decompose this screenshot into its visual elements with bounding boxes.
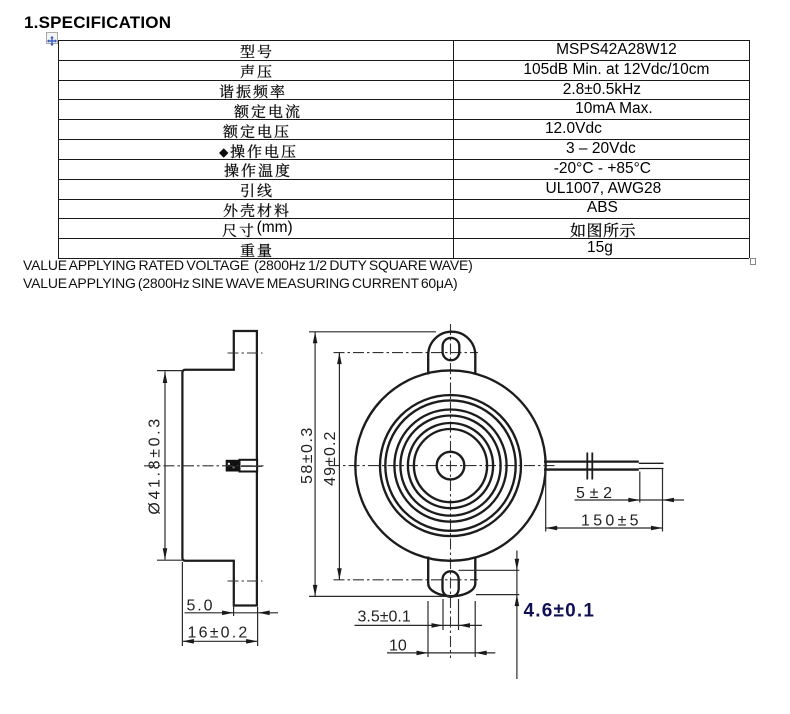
side view top tab centerline	[228, 352, 263, 354]
front view inner ring inner	[414, 429, 487, 502]
front view body circle outer	[380, 395, 521, 536]
150 left extension line	[545, 471, 547, 532]
svg-text:5.0: 5.0	[187, 598, 215, 615]
5.0 arrow right side	[258, 611, 270, 616]
wire break mark 1	[586, 453, 588, 480]
side view lead connector black block	[226, 460, 240, 472]
side view lead connector outlined block	[240, 460, 258, 472]
top tab hole centerline / 49-dim top reference	[334, 352, 479, 354]
dia41.8 dimension line	[164, 372, 166, 560]
10 extension right	[474, 601, 476, 657]
5+-2 arrow right	[663, 498, 675, 503]
10 dimension line	[387, 652, 495, 654]
3.5 extension right	[458, 599, 460, 630]
16 arrow left	[182, 639, 194, 644]
side view bottom tab centerline	[228, 580, 263, 582]
svg-text:16±0.2: 16±0.2	[188, 625, 250, 642]
svg-text:5±2: 5±2	[576, 485, 617, 502]
49 dimension line	[338, 353, 340, 580]
svg-text:3.5±0.1: 3.5±0.1	[358, 609, 411, 626]
front view inner ring outer	[408, 423, 493, 508]
wire lead bottom	[544, 468, 639, 470]
section title	[24, 13, 171, 33]
150 dimension line	[546, 527, 663, 529]
58 extension top	[309, 331, 436, 333]
front view vertical centerline	[450, 324, 452, 658]
stripped wire end top	[639, 462, 664, 464]
wire end extension line	[639, 472, 641, 503]
front view top mounting tab	[428, 332, 475, 375]
16 extension left	[181, 562, 183, 646]
3.5 extension left	[442, 599, 444, 630]
150 arrow right	[651, 526, 663, 531]
dia41.8 arrow down	[163, 548, 168, 560]
table move handle icon	[46, 32, 58, 44]
front view body circle inner	[385, 400, 515, 530]
58 arrow bottom	[313, 585, 318, 597]
front view ridge ring outer	[394, 410, 506, 522]
bottom tab hole	[443, 571, 459, 597]
49 arrow top	[337, 353, 342, 365]
16 arrow right	[246, 639, 258, 644]
5.0 extension line	[233, 600, 235, 617]
svg-text:58±0.3: 58±0.3	[299, 426, 316, 484]
bottom tab hole centerline / 49-dim bottom reference	[334, 579, 479, 581]
49 arrow bottom	[337, 568, 342, 580]
svg-text:49±0.2: 49±0.2	[322, 430, 339, 485]
svg-text:Ø41.8±0.3: Ø41.8±0.3	[147, 416, 164, 514]
4.6 top reference line	[459, 569, 520, 571]
58 dimension line	[314, 332, 316, 597]
wire tip extension line	[662, 469, 664, 532]
side view body outline	[182, 331, 257, 606]
10 extension left	[427, 601, 429, 657]
top tab hole	[443, 338, 460, 360]
stripped wire end bottom	[639, 468, 664, 470]
4.6 arrow up	[515, 595, 520, 607]
front view bottom mounting tab	[428, 557, 475, 597]
svg-text:150±5: 150±5	[581, 513, 642, 530]
note line 2	[23, 275, 458, 291]
side view main centerline	[144, 465, 264, 467]
4.6 bottom reference line	[476, 594, 519, 596]
5+-2 dimension line	[575, 499, 685, 501]
table resize handle	[750, 258, 757, 265]
front view ridge ring inner	[400, 416, 500, 516]
58 extension bottom	[309, 595, 452, 597]
dia41.8 extension top	[157, 370, 183, 372]
4.6 arrow down	[515, 559, 520, 571]
3.5 arrow right	[459, 623, 471, 628]
5+-2 arrow left	[628, 498, 640, 503]
dia41.8 extension bottom	[157, 559, 183, 561]
3.5 dimension line	[355, 624, 483, 626]
10 arrow left	[417, 651, 429, 656]
4.6 dimension line	[516, 551, 518, 680]
5.0 dimension line	[185, 612, 279, 614]
front view horizontal centerline	[329, 465, 557, 467]
wire break mark 2	[591, 453, 593, 480]
16 dimension line	[182, 640, 257, 642]
svg-text:10: 10	[389, 638, 407, 655]
3.5 arrow left	[432, 623, 444, 628]
svg-text:4.6±0.1: 4.6±0.1	[524, 601, 596, 622]
5.0 arrow left side	[222, 611, 234, 616]
dia41.8 arrow up	[163, 372, 168, 384]
front view center sound hole	[437, 452, 465, 480]
front view outer flange circle	[355, 370, 545, 560]
58 arrow top	[313, 332, 318, 344]
16 extension right	[257, 607, 259, 646]
specification table	[58, 40, 750, 258]
wire lead top	[544, 461, 639, 463]
note line 1	[23, 257, 473, 273]
150 arrow left	[546, 526, 558, 531]
10 arrow right	[475, 651, 487, 656]
